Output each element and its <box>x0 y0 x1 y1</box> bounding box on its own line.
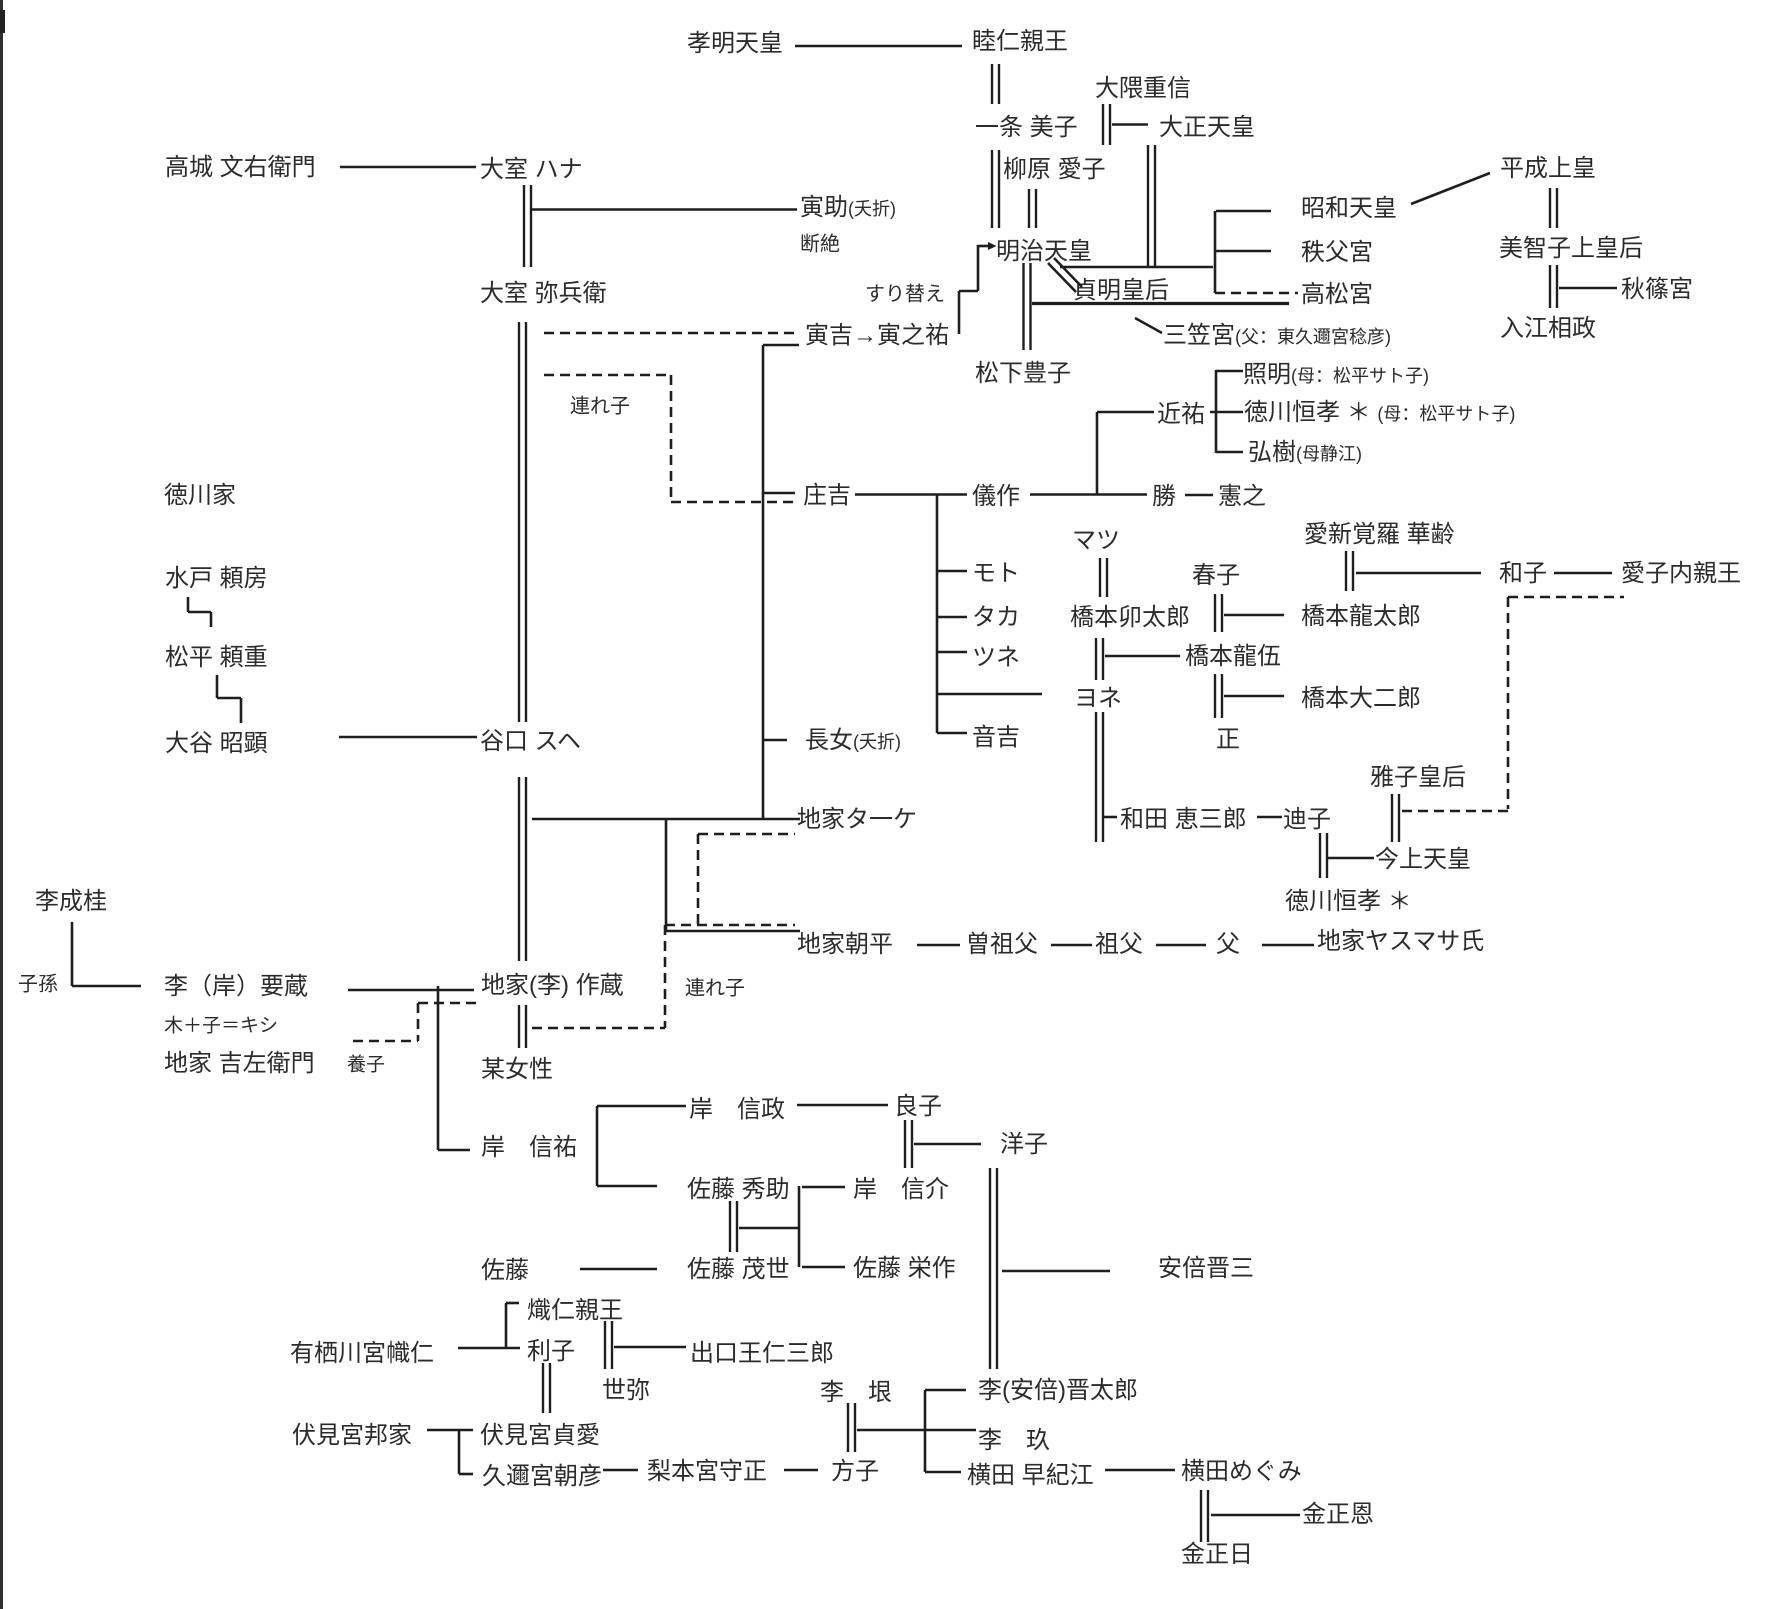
svg-text:寅吉→寅之祐: 寅吉→寅之祐 <box>805 322 949 349</box>
svg-text:マツ: マツ <box>1072 527 1120 554</box>
wire to-yoko <box>914 1143 981 1146</box>
wire double okuma-down <box>1103 104 1110 145</box>
wire dashed tsureko2-v1 <box>697 834 700 925</box>
wire torakichi-down <box>762 345 765 819</box>
svg-text:雅子皇后: 雅子皇后 <box>1370 764 1466 791</box>
wire double ryoko-down <box>905 1120 912 1168</box>
svg-text:春子: 春子 <box>1192 562 1240 589</box>
wire to-chojo <box>763 739 787 742</box>
wire meiji-teimei double diagonal <box>1054 258 1082 287</box>
wire double taisho-down <box>1148 145 1155 266</box>
wire dashed tsureko2-h3 <box>532 1027 665 1030</box>
svg-text:断絶: 断絶 <box>800 232 840 255</box>
wire dashed aiko-dash-v <box>1507 597 1510 809</box>
wire dashed tsureko2-v2 <box>664 925 667 1028</box>
wire sato-bracket <box>798 1186 801 1267</box>
svg-text:モト: モト <box>972 560 1020 587</box>
wire double yone-wada <box>1096 712 1103 842</box>
wire komei-mutsuhito <box>795 45 962 48</box>
svg-text:父: 父 <box>1216 931 1240 958</box>
svg-text:佐藤 栄作: 佐藤 栄作 <box>853 1255 956 1282</box>
svg-text:和子: 和子 <box>1499 560 1547 587</box>
wire double hana-yahei <box>524 185 531 267</box>
wire double yanagiwara-meiji <box>1029 189 1036 228</box>
svg-text:李(安倍)晋太郎: 李(安倍)晋太郎 <box>978 1377 1138 1404</box>
wire to-taka <box>937 616 967 619</box>
wire chohei-sosofu <box>917 944 960 947</box>
wire arrow-line <box>978 245 989 248</box>
wire to-deguchi <box>614 1346 686 1349</box>
wire double rigin-masako <box>848 1403 855 1452</box>
wire sakuzo-nobusuke-v <box>437 986 440 1150</box>
svg-text:地家朝平: 地家朝平 <box>797 931 893 958</box>
svg-text:貞明皇后: 貞明皇后 <box>1073 277 1169 304</box>
svg-text:世弥: 世弥 <box>602 1377 650 1404</box>
wire to-hiroki <box>1216 451 1243 454</box>
svg-text:大谷 昭顕: 大谷 昭顕 <box>165 730 268 757</box>
wire to-terumei <box>1216 370 1243 373</box>
svg-text:庄吉: 庄吉 <box>803 482 851 509</box>
svg-text:昭和天皇: 昭和天皇 <box>1301 195 1397 222</box>
arrowhead meiji <box>988 242 997 250</box>
svg-text:ヨネ: ヨネ <box>1074 685 1122 712</box>
wire arisugawa-toshiko <box>458 1347 520 1350</box>
svg-text:照明(母：松平サト子): 照明(母：松平サト子) <box>1243 361 1429 388</box>
wire tokugawa-bracket <box>1215 370 1218 453</box>
wire to-eisaku <box>802 1266 845 1269</box>
svg-text:タカ: タカ <box>972 604 1020 631</box>
svg-text:養子: 養子 <box>347 1054 385 1076</box>
svg-text:佐藤: 佐藤 <box>481 1257 529 1284</box>
wire taisho-children <box>1060 266 1213 269</box>
wire dashed to-torakichi-dash <box>544 332 795 335</box>
svg-text:洋子: 洋子 <box>1000 1131 1048 1158</box>
wire double michiko-irie <box>1550 265 1557 308</box>
wire double heisei-michiko <box>1550 188 1557 228</box>
svg-text:李（岸）要蔵: 李（岸）要蔵 <box>164 973 308 1000</box>
wire masaru-noriyuki <box>1185 494 1213 497</box>
svg-text:孝明天皇: 孝明天皇 <box>687 30 783 57</box>
svg-text:橋本龍太郎: 橋本龍太郎 <box>1301 603 1421 630</box>
svg-text:ツネ: ツネ <box>972 644 1020 671</box>
wire to-jigetake <box>532 818 800 821</box>
wire mito-step2 <box>188 611 211 614</box>
svg-text:連れ子: 連れ子 <box>685 976 745 999</box>
wire double masako-down <box>1392 794 1399 842</box>
wire to-abeshinzo <box>1002 1270 1110 1273</box>
svg-text:岸 信政: 岸 信政 <box>689 1096 785 1123</box>
left page border <box>0 0 3 1609</box>
wire to-kinjo <box>1328 857 1374 860</box>
wire sato-moyo-line <box>580 1268 657 1271</box>
wire to-moto <box>937 570 967 573</box>
wire double yoko-down <box>990 1168 997 1369</box>
wire takagi-hana <box>340 166 476 169</box>
svg-text:子孫: 子孫 <box>18 972 58 995</box>
svg-text:徳川家: 徳川家 <box>164 482 236 509</box>
svg-text:横田 早紀江: 横田 早紀江 <box>967 1462 1094 1489</box>
svg-text:佐藤 茂世: 佐藤 茂世 <box>687 1256 790 1283</box>
wire to-rikyu <box>857 1429 976 1432</box>
wire mito-step1 <box>187 597 190 612</box>
svg-text:美智子上皇后: 美智子上皇后 <box>1499 235 1643 262</box>
wire wada-michico <box>1257 816 1282 819</box>
svg-text:入江相政: 入江相政 <box>1500 315 1596 342</box>
svg-text:秋篠宮: 秋篠宮 <box>1621 276 1693 303</box>
wire sakie-megumi <box>1105 1469 1175 1472</box>
wire taruhito-bracket <box>505 1303 508 1348</box>
wire to-tsune <box>937 651 967 654</box>
wire to-ryugo <box>1105 655 1180 658</box>
svg-text:李 垠: 李 垠 <box>820 1379 892 1406</box>
svg-text:儀作: 儀作 <box>972 483 1020 510</box>
wire mito-step3 <box>210 612 213 627</box>
wire to-ryutaro <box>1224 614 1284 617</box>
svg-text:愛子内親王: 愛子内親王 <box>1621 560 1741 587</box>
svg-text:地家タ一ケ: 地家タ一ケ <box>797 806 917 833</box>
wire matsu-step3 <box>240 698 243 723</box>
wire showa-heisei-diag <box>1411 173 1490 204</box>
wire to-chikasuke <box>1097 411 1154 414</box>
svg-text:近祐: 近祐 <box>1157 401 1205 428</box>
svg-text:大隈重信: 大隈重信 <box>1095 75 1191 102</box>
svg-text:李成桂: 李成桂 <box>35 888 107 915</box>
wire riseikei-down <box>71 922 74 986</box>
wire chichi-yasumasa <box>1262 944 1314 947</box>
wire to-akishino <box>1559 287 1617 290</box>
wire double haruko-down <box>1215 594 1222 632</box>
wire double sakuzo-bojosei <box>519 1005 526 1048</box>
svg-text:祖父: 祖父 <box>1095 931 1143 958</box>
svg-text:某女性: 某女性 <box>481 1056 553 1083</box>
wire shison-riyozo <box>72 985 141 988</box>
svg-text:迪子: 迪子 <box>1283 806 1331 833</box>
svg-text:松下豊子: 松下豊子 <box>975 360 1071 387</box>
wire to-sakie <box>925 1471 961 1474</box>
svg-text:久邇宮朝彦: 久邇宮朝彦 <box>482 1463 602 1490</box>
svg-text:松平 頼重: 松平 頼重 <box>165 644 268 671</box>
svg-text:伏見宮邦家: 伏見宮邦家 <box>292 1422 412 1449</box>
wire matsu-step2 <box>217 697 241 700</box>
svg-text:大室 弥兵衛: 大室 弥兵衛 <box>480 280 607 307</box>
wire double sue-sakuzo <box>519 777 526 961</box>
svg-text:正: 正 <box>1216 726 1240 753</box>
svg-text:徳川恒孝 ＊ (母：松平サト子): 徳川恒孝 ＊ (母：松平サト子) <box>1244 399 1515 426</box>
svg-text:橋本龍伍: 橋本龍伍 <box>1185 643 1281 670</box>
svg-text:睦仁親王: 睦仁親王 <box>972 28 1068 55</box>
wire double hidesuke-moyo <box>730 1201 737 1252</box>
wire dashed tsureko1-h2 <box>671 501 795 504</box>
svg-text:高城 文右衛門: 高城 文右衛門 <box>165 154 316 181</box>
wire to-wada <box>1104 816 1117 819</box>
svg-text:有栖川宮幟仁: 有栖川宮幟仁 <box>290 1340 434 1367</box>
svg-text:良子: 良子 <box>894 1093 942 1120</box>
svg-text:安倍晋三: 安倍晋三 <box>1158 1255 1254 1282</box>
svg-text:大正天皇: 大正天皇 <box>1159 114 1255 141</box>
wire double kareii-down <box>1346 551 1353 591</box>
wire to-nobusuke0 <box>438 1149 470 1152</box>
wire to-shokichi <box>763 492 795 495</box>
svg-text:熾仁親王: 熾仁親王 <box>527 1297 623 1324</box>
svg-text:利子: 利子 <box>527 1338 575 1365</box>
wire double megumi-down <box>1201 1490 1208 1542</box>
svg-text:地家 吉左衛門: 地家 吉左衛門 <box>164 1050 315 1077</box>
wire double taruhito-seya <box>605 1321 612 1369</box>
svg-text:梨本宮守正: 梨本宮守正 <box>647 1458 767 1485</box>
wire dashed tsureko1-v <box>670 375 673 502</box>
svg-text:大室 ハナ: 大室 ハナ <box>480 156 583 183</box>
wire nashimoto-masako <box>784 1469 818 1472</box>
wire sofu-chichi <box>1156 944 1206 947</box>
wire dashed tsureko2-h1 <box>698 833 795 836</box>
svg-text:橋本卯太郎: 橋本卯太郎 <box>1070 604 1190 631</box>
svg-text:岸 信祐: 岸 信祐 <box>481 1134 577 1161</box>
wire to-yone <box>937 693 1042 696</box>
wire to-daijiro <box>1224 695 1284 698</box>
wire double ichijo-meiji <box>992 150 999 228</box>
svg-text:すり替え: すり替え <box>865 282 945 305</box>
wire hidesuke-bracket <box>739 1227 799 1230</box>
wire shokichi-gisaku <box>855 493 967 496</box>
svg-text:平成上皇: 平成上皇 <box>1500 155 1596 182</box>
wire otani-taniguchi <box>339 736 477 739</box>
wire shintaro-bracket <box>924 1390 927 1472</box>
svg-text:佐藤 秀助: 佐藤 秀助 <box>687 1176 790 1203</box>
wire dashed masako-dash-h <box>1402 810 1508 813</box>
wire meiji-line <box>1032 302 1289 305</box>
wire kareii-kazuko <box>1356 572 1481 575</box>
wire double matsu-utaro <box>1100 558 1107 597</box>
svg-text:柳原 愛子: 柳原 愛子 <box>1003 156 1106 183</box>
wire chikasuke-down <box>1096 412 1099 495</box>
wire fushimi-bracket <box>458 1430 461 1474</box>
wire to-chichibu <box>1216 250 1271 253</box>
svg-text:弘樹(母静江): 弘樹(母静江) <box>1248 439 1362 466</box>
svg-text:明治天皇: 明治天皇 <box>996 238 1092 265</box>
svg-text:曽祖父: 曽祖父 <box>966 931 1038 958</box>
svg-text:連れ子: 連れ子 <box>570 394 630 417</box>
svg-text:横田めぐみ: 横田めぐみ <box>1181 1458 1302 1485</box>
wire dashed yoshi-h1 <box>418 1002 476 1005</box>
wire double ryugo-down <box>1215 674 1222 718</box>
wire riyozo-sakuzo <box>348 989 474 992</box>
wire arrow-v1 <box>977 245 980 291</box>
wire to-nobumasa <box>597 1105 686 1108</box>
svg-text:寅助(夭折): 寅助(夭折) <box>800 194 896 221</box>
svg-text:水戸 頼房: 水戸 頼房 <box>165 565 268 592</box>
svg-text:李 玖: 李 玖 <box>978 1427 1050 1454</box>
wire mikasa diagonal <box>1135 318 1162 333</box>
wire asahiko-nashimoto <box>603 1469 638 1472</box>
wire kishi-bracket <box>596 1106 599 1186</box>
svg-text:岸 信介: 岸 信介 <box>853 1176 949 1203</box>
wire to-nobusuke <box>802 1186 845 1189</box>
svg-text:橋本大二郎: 橋本大二郎 <box>1301 685 1421 712</box>
wire gisaku-masaru <box>1030 493 1147 496</box>
wire okuma-taisho <box>1112 123 1148 126</box>
svg-text:木＋子＝キシ: 木＋子＝キシ <box>164 1015 278 1037</box>
wire double mutsuhito-ichijo <box>992 64 999 104</box>
wire matsu-step1 <box>216 675 219 698</box>
svg-text:音吉: 音吉 <box>972 724 1020 751</box>
svg-text:和田 恵三郎: 和田 恵三郎 <box>1120 806 1247 833</box>
wire to-hidesuke <box>597 1185 657 1188</box>
svg-text:地家ヤスマサ氏: 地家ヤスマサ氏 <box>1317 928 1484 955</box>
wire to-otokichi <box>937 732 967 735</box>
svg-text:憲之: 憲之 <box>1218 483 1266 510</box>
wire dashed tsureko1-h1 <box>544 374 671 377</box>
wire hana-torasuke <box>532 208 797 211</box>
svg-text:愛新覚羅 華齢: 愛新覚羅 華齢 <box>1304 521 1455 548</box>
wire showa-bracket <box>1214 211 1217 293</box>
wire gisaku-children <box>936 495 939 734</box>
wire double meiji-matsushita <box>1024 263 1031 350</box>
wire to-chohei <box>666 930 800 933</box>
wire sosofu-sofu <box>1051 944 1092 947</box>
svg-text:一条 美子: 一条 美子 <box>975 114 1078 141</box>
wire arrow-v2 <box>958 291 961 334</box>
wire torakichi-corner <box>763 344 799 347</box>
wire to-showa <box>1216 210 1271 213</box>
wire chikasuke-tsunenari <box>1210 411 1243 414</box>
svg-text:勝: 勝 <box>1152 483 1176 510</box>
svg-text:金正日: 金正日 <box>1181 1541 1253 1568</box>
wire double michico-down <box>1320 833 1327 878</box>
svg-text:谷口 スヘ: 谷口 スヘ <box>480 728 581 755</box>
wire kuniie-sadanaru <box>427 1429 473 1432</box>
svg-text:伏見宮貞愛: 伏見宮貞愛 <box>480 1422 600 1449</box>
wire double yahei-sue <box>519 322 526 722</box>
svg-text:長女(夭折): 長女(夭折) <box>805 727 901 754</box>
wire to-taruhito <box>506 1302 519 1305</box>
wire to-kimjongun <box>1211 1514 1300 1517</box>
wire dashed aiko-dash-h <box>1508 596 1624 599</box>
wire double toshiko-down <box>543 1363 550 1413</box>
svg-text:今上天皇: 今上天皇 <box>1375 846 1471 873</box>
wire dashed yoshi-h2 <box>353 1040 418 1043</box>
svg-text:金正恩: 金正恩 <box>1302 1501 1374 1528</box>
svg-text:秩父宮: 秩父宮 <box>1301 239 1373 266</box>
wire dashed to-takamatsu-dash <box>1215 292 1298 295</box>
svg-text:出口王仁三郎: 出口王仁三郎 <box>690 1340 834 1367</box>
svg-text:三笠宮(父：東久邇宮稔彦): 三笠宮(父：東久邇宮稔彦) <box>1163 322 1391 349</box>
wire arrow-h2 <box>959 290 978 293</box>
svg-text:方子: 方子 <box>831 1458 879 1485</box>
wire to-asahiko <box>459 1473 473 1476</box>
wire dashed yoshi-v <box>417 1003 420 1041</box>
wire meiji-teimei double diagonal <box>1048 263 1076 292</box>
svg-text:高松宮: 高松宮 <box>1301 281 1373 308</box>
wire double utaro-yone <box>1096 638 1103 680</box>
wire dashed tsureko2-h2 <box>665 924 795 927</box>
svg-text:地家(李) 作蔵: 地家(李) 作蔵 <box>481 972 624 999</box>
wire to-shintaro <box>925 1389 966 1392</box>
wire nobumasa-ryoko <box>797 1104 888 1107</box>
wire take-chohei-v <box>665 819 668 931</box>
wire kazuko-aiko <box>1554 572 1612 575</box>
svg-text:徳川恒孝 ＊: 徳川恒孝 ＊ <box>1285 888 1412 915</box>
